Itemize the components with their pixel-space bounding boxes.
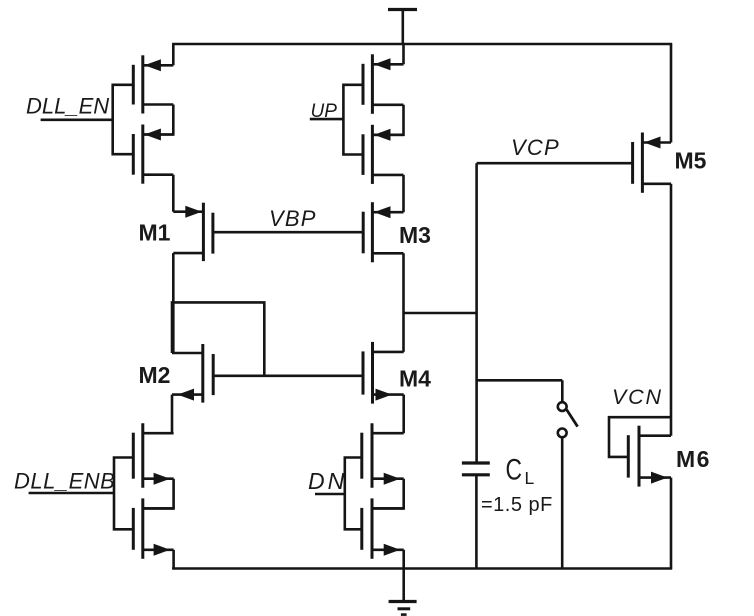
wire output node to switch xyxy=(477,380,563,402)
wire UP pair middle xyxy=(372,105,403,135)
wire DN source to ground rail xyxy=(402,550,405,569)
wire ground rail xyxy=(172,567,672,570)
label M3 xyxy=(399,222,431,248)
wire UP input lead xyxy=(310,118,344,121)
svg-text:DLL_EN: DLL_EN xyxy=(26,93,109,118)
svg-text:M5: M5 xyxy=(675,147,707,173)
wire DN input lead xyxy=(315,493,345,496)
wire output node to charge-pump column xyxy=(404,312,477,315)
wire DLL_EN input lead xyxy=(41,119,113,122)
wire VDD rail xyxy=(172,43,672,46)
wire VBP xyxy=(213,231,363,234)
svg-text:VCN: VCN xyxy=(612,385,663,409)
label VCP xyxy=(511,135,560,160)
transistor DLL_EN top PMOS xyxy=(133,44,173,114)
label DN xyxy=(308,468,347,494)
wire DLL_ENB gate bus xyxy=(114,458,133,530)
label CL xyxy=(506,453,535,488)
capacitor CL xyxy=(462,463,490,569)
wire DN gate bus xyxy=(345,458,362,530)
wire M4 source to DN pair xyxy=(402,395,405,434)
wire DLL_EN pair middle xyxy=(143,105,174,135)
label DLL_ENB xyxy=(14,468,115,493)
wire output node vertical xyxy=(475,163,478,463)
wire switch to ground rail xyxy=(561,438,564,569)
wire M2-M4 gate net xyxy=(213,374,363,377)
label M4 xyxy=(399,365,431,391)
wire DLL_ENB pair middle xyxy=(143,479,174,509)
switch S1 xyxy=(558,402,578,437)
wire UP gate bus xyxy=(343,85,363,155)
label M6 xyxy=(676,446,711,472)
label M5 xyxy=(675,147,707,173)
wire DLL_ENB source to ground rail xyxy=(172,550,175,569)
wire DN pair middle xyxy=(372,479,404,509)
label VBP xyxy=(269,206,317,231)
svg-text:M6: M6 xyxy=(676,446,711,472)
wire node between DLL_EN pair and M1 xyxy=(172,175,175,212)
svg-text:DLL_ENB: DLL_ENB xyxy=(14,468,115,493)
svg-text:M2: M2 xyxy=(139,362,171,388)
wire M5 drain to M6 drain xyxy=(670,184,673,436)
ground xyxy=(389,569,417,615)
svg-text:L: L xyxy=(525,468,535,488)
wire DLL_EN gate bus xyxy=(113,85,134,154)
svg-text:VCP: VCP xyxy=(511,135,560,160)
wire VCP xyxy=(477,162,633,165)
wire M1 drain to M2 xyxy=(172,253,175,353)
label CL value xyxy=(481,494,553,516)
svg-text:C: C xyxy=(506,453,523,486)
transistor M4 xyxy=(363,342,404,404)
wire node between UP pair and M3 xyxy=(402,175,405,212)
transistor M1 xyxy=(173,203,213,261)
label M1 xyxy=(139,220,171,246)
label UP xyxy=(311,101,338,122)
svg-text:M3: M3 xyxy=(399,222,431,248)
wire M2 diode connection xyxy=(172,302,264,375)
transistor M6 xyxy=(628,426,671,487)
power VDD xyxy=(388,10,417,45)
transistor M2 xyxy=(172,344,213,403)
label M2 xyxy=(139,362,171,388)
wire VDD rail to M5 xyxy=(670,44,673,143)
transistor DLL_ENB top NMOS xyxy=(133,423,173,488)
wire M6 source to ground rail xyxy=(670,478,673,569)
wire M2 source to DLL_ENB pair xyxy=(171,395,174,434)
transistor M3 xyxy=(363,202,403,262)
transistor DN top NMOS xyxy=(362,423,404,488)
svg-text:M4: M4 xyxy=(399,365,431,391)
label DLL_EN xyxy=(26,93,109,118)
svg-text:UP: UP xyxy=(311,101,338,122)
transistor M5 xyxy=(633,133,671,193)
svg-text:=1.5 pF: =1.5 pF xyxy=(481,494,553,516)
transistor DLL_EN bottom PMOS xyxy=(133,125,173,184)
wire M3 drain to M4 drain xyxy=(402,253,405,352)
transistor DN bottom NMOS xyxy=(362,498,404,558)
transistor UP top PMOS xyxy=(363,44,404,114)
label VCN xyxy=(612,385,663,409)
wire DLL_ENB input lead xyxy=(29,492,114,495)
transistor DLL_ENB bottom NMOS xyxy=(133,498,173,558)
transistor UP bottom PMOS xyxy=(363,125,404,184)
svg-text:DN: DN xyxy=(308,468,347,494)
svg-text:VBP: VBP xyxy=(269,206,317,231)
wire M6 gate connection xyxy=(609,417,671,457)
svg-text:M1: M1 xyxy=(139,220,171,246)
